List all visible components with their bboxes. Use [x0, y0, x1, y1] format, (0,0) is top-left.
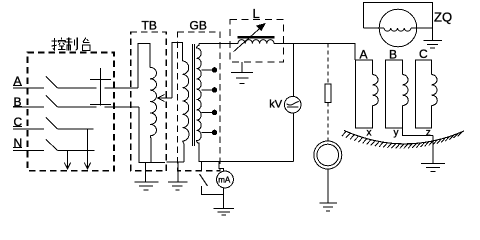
wire GB secondary top to L [199, 43, 238, 45]
oscillator ZQ frame [363, 2, 432, 28]
svg-text:B: B [14, 95, 22, 109]
detector ground lead [327, 169, 329, 203]
kV meter top lead [292, 44, 294, 97]
wire phase C left stub [13, 128, 44, 130]
svg-text:ZQ: ZQ [434, 10, 452, 25]
tap dot 3 [212, 110, 217, 115]
ground stator [421, 164, 445, 172]
stator winding C coil [432, 75, 438, 106]
wire phase C [58, 128, 94, 130]
terminal label C underline [13, 126, 22, 128]
wire phase A left stub [13, 87, 44, 89]
dashed lead resistor to detector [327, 103, 329, 142]
resistor R [325, 84, 331, 103]
wire phase C drop [87, 129, 89, 169]
GB secondary tap 3 [202, 112, 214, 114]
svg-text:C: C [14, 115, 23, 129]
TB wiper tap arrow [158, 95, 173, 102]
GB secondary tap 2 [202, 89, 214, 91]
reactor L dashed box [230, 20, 284, 62]
mA bypass switch [200, 162, 224, 195]
milliammeter mA top lead [219, 162, 224, 171]
wire phase N left stub [13, 150, 44, 152]
wire TB input riser from B [139, 107, 165, 162]
stator winding A frame [356, 60, 373, 128]
stator winding B coil [403, 75, 409, 106]
svg-text:A: A [360, 48, 368, 62]
reactor L coil [238, 40, 274, 44]
kV meter bottom lead [292, 112, 294, 161]
measuring return wire [199, 161, 294, 163]
detector double circle [314, 141, 342, 169]
svg-text:y: y [394, 128, 399, 139]
svg-text:GB: GB [190, 19, 207, 33]
oscillator ZQ circle [379, 9, 417, 47]
wire TB coil bottom [149, 136, 152, 163]
oscillator ZQ winding chord [363, 27, 384, 29]
ground mA [213, 208, 234, 215]
svg-text:B: B [389, 48, 397, 62]
wire phase B left stub [13, 106, 44, 108]
ZQ ground lead [432, 28, 434, 40]
tap dot 1 [212, 68, 217, 73]
voltage regulator TB dashed box [131, 32, 167, 171]
svg-text:N: N [14, 136, 23, 150]
damping resistor branch dashed lead [327, 44, 329, 84]
switch blade phase A [46, 77, 58, 89]
stator winding A coil [373, 75, 379, 106]
control console dashed box 控制台 [28, 53, 115, 171]
svg-text:A: A [14, 74, 22, 88]
switch blade phase C [46, 118, 58, 130]
switch blade phase B [46, 96, 58, 108]
step-up transformer GB dashed box [178, 32, 221, 171]
arrow phase N [64, 163, 70, 169]
stator core ground line [432, 136, 434, 164]
reactor L core bar [238, 36, 275, 39]
main HV bus [274, 44, 355, 60]
wire winding B tail to ground line [403, 128, 434, 136]
GB primary coil [183, 61, 190, 141]
terminal label B underline [13, 106, 22, 108]
wire phase N [58, 150, 95, 152]
svg-text:L: L [253, 6, 260, 21]
ground detector [319, 203, 336, 211]
terminal label N underline [13, 147, 22, 149]
wire phase N drop [67, 151, 69, 169]
ground ZQ [424, 41, 442, 49]
stator winding B frame [386, 60, 403, 128]
svg-text:x: x [367, 128, 372, 139]
ground TB [135, 162, 159, 190]
svg-text:mA: mA [218, 176, 231, 185]
svg-text:kV: kV [269, 99, 283, 111]
svg-text:C: C [419, 47, 428, 61]
linked-switch lower crossbar [90, 104, 111, 106]
autotransformer TB coil [150, 67, 156, 135]
svg-text:z: z [426, 128, 431, 139]
reactor L variable arrow [234, 26, 262, 51]
terminal label A underline [13, 85, 22, 87]
wire TB tap to GB primary [172, 43, 183, 99]
stator core hatched curve [344, 131, 464, 144]
wire phase A linkage to TB riser [105, 87, 139, 89]
wire phase A to linkage [58, 87, 97, 89]
linked-switch vertical bar [100, 68, 102, 106]
GB secondary coil [197, 43, 202, 162]
arrow phase C [84, 163, 90, 169]
hatching ticks [342, 131, 462, 148]
GB secondary tap 1 [202, 69, 214, 71]
ground GB primary [168, 162, 187, 190]
linked-switch upper crossbar [90, 79, 111, 81]
stator winding C frame [416, 60, 432, 128]
GB secondary tap 4 [202, 132, 214, 134]
wire phase B linkage to TB riser [105, 106, 140, 108]
voltmeter kV [284, 96, 301, 113]
ground L [231, 62, 253, 84]
wire phase B to linkage [58, 106, 97, 108]
tap dot 2 [212, 88, 217, 93]
label 控制台 (hand-drawn CJK strokes) [52, 38, 90, 51]
GB core [192, 44, 194, 146]
wire TB input riser from A [138, 44, 150, 89]
switch blade phase N [46, 140, 58, 151]
wire GB primary bottom [167, 141, 184, 162]
milliammeter mA bottom lead [223, 188, 225, 208]
tap dot 4 [212, 130, 217, 135]
milliammeter mA [217, 171, 234, 188]
svg-text:TB: TB [142, 19, 157, 33]
